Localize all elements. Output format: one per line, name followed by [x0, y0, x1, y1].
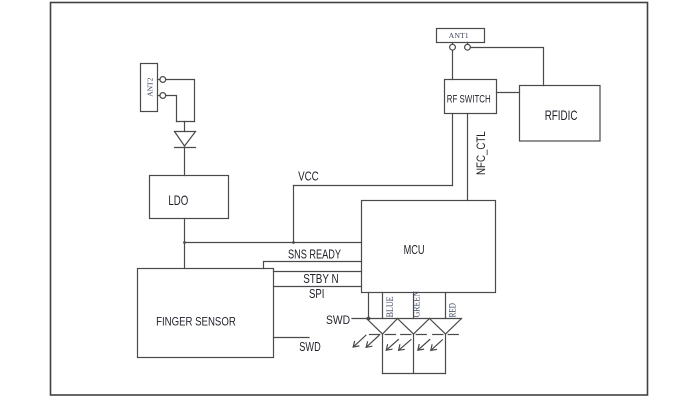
wire SWD stub upper — [352, 318, 369, 320]
diode D1 — [175, 131, 196, 133]
ANT2 port pin 2 — [158, 95, 161, 97]
svg-text:SWD: SWD — [326, 313, 350, 327]
svg-text:ANT2: ANT2 — [146, 77, 155, 96]
wire SPI net — [274, 286, 362, 288]
wire MCU to LED blue — [382, 293, 384, 319]
svg-text:GREEN: GREEN — [412, 291, 422, 318]
wire MCU to LED common — [368, 293, 370, 319]
wire LED blue cathode — [382, 334, 384, 374]
LED D2 blue — [367, 319, 383, 335]
regulator LDO box — [150, 176, 229, 219]
wire ANT2 pin1 loop — [166, 80, 195, 122]
svg-text:NFC_CTL: NFC_CTL — [474, 131, 488, 175]
svg-text:LDO: LDO — [168, 192, 188, 208]
svg-text:SNS READY: SNS READY — [288, 247, 341, 262]
LED D4 emission arrows — [418, 340, 430, 351]
svg-text:MCU: MCU — [404, 243, 425, 257]
ANT1 port pin 2 — [467, 43, 469, 45]
svg-text:ANT1: ANT1 — [449, 31, 469, 40]
wire ANT1 pin2 to RFID IC — [470, 48, 543, 86]
wire to diode anode — [184, 122, 186, 132]
LED D3 emission arrows — [386, 340, 398, 351]
wire STBY N net — [274, 271, 362, 273]
MCU U1 box — [362, 201, 496, 293]
wire LDO to finger sensor — [184, 219, 186, 269]
wire NFC_CTL net — [467, 114, 469, 201]
svg-text:VCC: VCC — [298, 169, 319, 184]
finger sensor box — [138, 269, 274, 358]
antenna ANT2 box — [141, 64, 158, 112]
node VCC junction — [292, 241, 295, 244]
wire LED green cathode — [413, 334, 415, 374]
svg-text:SPI: SPI — [309, 286, 324, 301]
antenna ANT1 box — [437, 29, 485, 43]
svg-text:BLUE: BLUE — [385, 296, 395, 317]
svg-text:SWD: SWD — [299, 339, 320, 354]
node LDO output junction — [183, 241, 186, 244]
svg-text:RED: RED — [448, 303, 458, 318]
LED D4 red — [430, 319, 446, 335]
wire RF switch to RFID IC — [497, 92, 520, 94]
wire MCU to LED red — [445, 293, 447, 319]
ANT2 port pin 1 — [158, 79, 161, 81]
wire VCC to MCU pin — [185, 242, 362, 244]
wire MCU to LED green — [413, 293, 415, 319]
wire VCC net horizontal — [294, 185, 453, 187]
wire loop join — [177, 121, 195, 123]
RFID IC U3 box — [520, 86, 601, 142]
wire SNS READY net — [264, 262, 362, 269]
svg-text:RF SWITCH: RF SWITCH — [447, 94, 491, 106]
LED D2 emission arrows — [353, 335, 366, 347]
wire ANT2 pin2 loop — [166, 96, 177, 122]
svg-text:STBY N: STBY N — [303, 271, 338, 286]
ANT1 port pin 1 — [452, 43, 454, 45]
svg-text:FINGER SENSOR: FINGER SENSOR — [156, 315, 236, 329]
wire diode to LDO — [184, 148, 186, 176]
LED D3 green — [398, 319, 414, 335]
wire SWD stub lower — [274, 337, 310, 339]
wire LED red cathode — [445, 334, 447, 374]
RF switch U2 box — [445, 80, 497, 114]
wire cathode common bus — [383, 373, 446, 375]
node LED anode bus — [367, 318, 462, 320]
wire VCC net vertical — [293, 186, 295, 243]
wire RF switch to VCC node — [452, 114, 454, 186]
svg-text:RFIDIC: RFIDIC — [545, 107, 578, 123]
wire ANT1 pin1 to RF switch — [452, 50, 454, 79]
